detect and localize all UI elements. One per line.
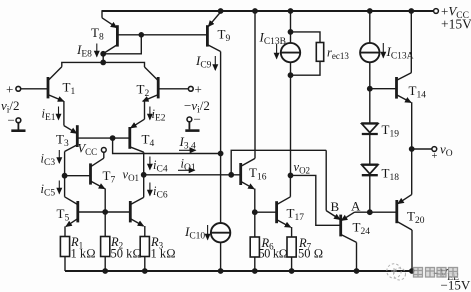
node junction I34	[218, 151, 222, 155]
node vO terminal circle	[432, 147, 437, 152]
label minus right	[194, 112, 201, 127]
wire T2 base input	[158, 88, 188, 90]
wire vO terminal	[412, 148, 432, 150]
label Vcc T7	[78, 142, 98, 158]
svg-text:T3: T3	[56, 132, 69, 150]
ground left	[11, 118, 25, 131]
node rail dot R3	[143, 269, 147, 273]
node +Vcc terminal	[434, 9, 439, 14]
node vO1	[142, 173, 146, 177]
label plus left	[6, 82, 13, 97]
label iO1 arrow	[178, 169, 195, 171]
node +Vcc label	[441, 4, 471, 32]
label R3	[150, 235, 176, 261]
label R6	[259, 236, 288, 261]
svg-text:rec13: rec13	[327, 46, 349, 62]
svg-text:T14: T14	[409, 83, 427, 101]
label plus right	[195, 82, 202, 97]
label -vi/2	[184, 98, 210, 116]
svg-text:−: −	[8, 113, 15, 128]
wire T14 emitter to vO	[411, 102, 413, 149]
label T7	[103, 168, 116, 186]
node rail dot IC13B	[288, 9, 292, 13]
svg-text:iC3: iC3	[41, 152, 56, 169]
svg-text:VCC: VCC	[78, 142, 98, 158]
transistor T5	[65, 197, 78, 227]
node junction vO1 T16	[229, 173, 233, 177]
wire T17 base	[255, 211, 277, 213]
label iC3	[41, 152, 56, 169]
svg-text:T16: T16	[249, 165, 267, 183]
label iE2 current arrow	[149, 107, 151, 120]
svg-text:−: −	[194, 112, 201, 127]
label T24	[353, 220, 371, 238]
label iC3 current arrow	[58, 150, 60, 163]
transistor T4	[130, 119, 145, 152]
svg-text:−15V: −15V	[441, 278, 471, 292]
svg-text:T24: T24	[353, 220, 371, 238]
wire T14 collector to rail	[410, 11, 412, 73]
transistor T2	[143, 67, 158, 101]
resistor rec13	[291, 32, 324, 75]
wire base tie to I34 node	[113, 138, 221, 153]
wire T3 collector down	[64, 152, 66, 176]
label -Vee	[432, 266, 471, 292]
node rail dot T20	[410, 269, 414, 273]
label IC9 current arrow	[214, 56, 216, 70]
label T2	[137, 82, 150, 100]
wire vO1 node to T24 emitter link	[231, 150, 326, 210]
node junction T3T4 base	[110, 136, 114, 140]
label T5	[57, 206, 70, 224]
node junction T8 collector	[101, 52, 105, 56]
transistor T24	[326, 211, 356, 243]
label vi/2	[1, 98, 20, 116]
node input + left terminal	[16, 86, 21, 91]
label minus left	[8, 113, 15, 128]
svg-text:1 kΩ: 1 kΩ	[151, 247, 176, 261]
svg-text:iE2: iE2	[152, 107, 166, 124]
wire vO1 to T16 base	[144, 174, 241, 176]
svg-text:T18: T18	[382, 166, 400, 184]
wire T1 emitter down	[63, 101, 65, 126]
label T14	[409, 83, 427, 101]
label T16	[249, 165, 267, 183]
svg-text:+: +	[195, 82, 202, 97]
current source IC13A	[360, 11, 379, 89]
label T3	[56, 132, 69, 150]
label T18	[382, 166, 400, 184]
label iO1	[181, 157, 196, 174]
label IE8	[76, 42, 92, 60]
node rail dot IC10	[218, 269, 222, 273]
resistor R1	[60, 226, 69, 271]
wire T2 emitter down	[144, 101, 146, 119]
diode T18	[361, 164, 378, 212]
node input + right terminal	[188, 86, 193, 91]
svg-text:IC10: IC10	[184, 224, 205, 242]
wire IC13B to vO2	[290, 75, 292, 175]
svg-text:IC13A: IC13A	[386, 44, 414, 62]
label I34 arrow	[179, 149, 196, 151]
label vO2	[294, 160, 311, 176]
label IC10 current arrow	[207, 225, 209, 240]
node junction T17 base	[253, 210, 257, 214]
svg-text:B: B	[331, 199, 340, 214]
svg-text:50 kΩ: 50 kΩ	[259, 247, 288, 261]
current source IC10	[211, 154, 230, 272]
label iC4	[153, 158, 168, 175]
diode T19	[361, 89, 378, 165]
node junction IC13B top	[288, 30, 292, 34]
label IC10	[184, 224, 205, 242]
svg-text:T20: T20	[407, 209, 425, 227]
wire T5 T6 base tie	[78, 211, 131, 213]
label rec13	[327, 46, 349, 62]
transistor T9	[207, 12, 220, 52]
resistor R6	[250, 212, 259, 271]
label I34	[179, 134, 196, 152]
label T4	[142, 132, 155, 150]
label IC13B current arrow	[276, 44, 278, 59]
label iE1 current arrow	[58, 107, 60, 120]
svg-text:T2: T2	[137, 82, 150, 100]
label IC13A	[386, 44, 414, 62]
transistor T17	[277, 197, 291, 227]
svg-text:vO2: vO2	[294, 160, 311, 176]
node junction T5T6 base	[103, 210, 107, 214]
node junction T8 base	[139, 33, 143, 37]
label vO	[432, 142, 453, 163]
node rail dot R6	[253, 269, 257, 273]
label T8	[91, 25, 104, 43]
label IC9	[195, 53, 212, 71]
transistor T3	[64, 125, 77, 151]
label T19	[382, 122, 400, 140]
node vO	[410, 147, 414, 151]
label IC13B	[259, 30, 287, 48]
svg-text:I3,4: I3,4	[179, 134, 196, 152]
wire T1 T2 collector bus	[62, 62, 145, 67]
svg-text:IC9: IC9	[195, 53, 212, 71]
svg-text:vO1: vO1	[123, 168, 140, 184]
label iC5 current arrow	[58, 181, 60, 194]
transistor T20	[397, 195, 412, 230]
wire vO2 to T24 base	[291, 175, 341, 225]
svg-text:T5: T5	[57, 206, 70, 224]
resistor R7	[287, 227, 296, 271]
current source IC13B	[281, 11, 300, 75]
svg-text:iC6: iC6	[153, 184, 168, 201]
svg-text:T9: T9	[218, 27, 231, 45]
label T17	[287, 206, 305, 224]
label R7	[298, 236, 323, 261]
svg-text:T4: T4	[142, 132, 155, 150]
label iC5	[41, 182, 56, 199]
svg-text:IE8: IE8	[76, 42, 92, 60]
wire T3 T4 base tie	[77, 137, 130, 139]
label iE2	[152, 107, 166, 124]
label T20	[407, 209, 425, 227]
label iC4 current arrow	[149, 157, 151, 170]
wire T20 collector down	[411, 230, 413, 271]
node Vcc terminal T7	[101, 148, 106, 159]
label R2	[110, 235, 142, 261]
svg-text:vO: vO	[440, 142, 453, 160]
label R1	[70, 235, 96, 261]
node rail dot R7	[289, 269, 293, 273]
wire node A	[355, 211, 397, 213]
svg-text:T8: T8	[91, 25, 104, 43]
node vO2	[288, 173, 292, 177]
node rail dot T14	[409, 9, 413, 13]
svg-text:+15V: +15V	[441, 17, 471, 32]
svg-text:T7: T7	[103, 168, 116, 186]
label iC6 current arrow	[149, 183, 151, 196]
transistor T14	[397, 73, 412, 103]
svg-text:50 Ω: 50 Ω	[298, 247, 323, 261]
label IE8 current arrow	[96, 44, 98, 57]
wire T20 emitter up	[411, 149, 413, 195]
svg-text:T19: T19	[382, 122, 400, 140]
node rail dot T16	[253, 9, 257, 13]
wire T9 collector down	[220, 52, 222, 154]
label vO1	[123, 168, 140, 184]
wire T16 collector to rail	[254, 11, 256, 158]
label IC13A current arrow	[382, 43, 384, 58]
transistor T7	[91, 158, 105, 188]
wire T6 collector to vO1	[143, 175, 145, 198]
node junction T9 emitter rail	[218, 9, 222, 13]
svg-text:1 kΩ: 1 kΩ	[71, 247, 96, 261]
svg-text:+: +	[6, 82, 13, 97]
wire T4 collector down	[143, 152, 145, 175]
svg-text:A: A	[351, 199, 361, 214]
wire T24 collector down	[356, 242, 358, 271]
svg-text:iC5: iC5	[41, 182, 56, 199]
ground right	[185, 117, 199, 131]
transistor T16	[241, 158, 255, 188]
wire iC5 down	[64, 176, 66, 197]
node junction T7 base	[62, 174, 66, 178]
svg-text:T1: T1	[63, 80, 76, 98]
svg-text:IC13B: IC13B	[259, 30, 287, 48]
svg-text:50 kΩ: 50 kΩ	[111, 247, 142, 261]
wire T7 emitter down	[104, 188, 106, 212]
label iE1	[42, 107, 56, 124]
label iC6	[153, 184, 168, 201]
node junction IC13B bottom	[288, 73, 292, 77]
label B	[331, 199, 340, 214]
transistor T1	[48, 67, 64, 101]
transistor T6	[130, 197, 143, 226]
svg-text:T17: T17	[287, 206, 305, 224]
watermark	[387, 264, 406, 280]
wire +Vcc top rail	[102, 10, 434, 18]
wire T17 collector to vO2	[289, 175, 291, 196]
label T9	[218, 27, 231, 45]
svg-text:+: +	[432, 151, 438, 162]
label T1	[63, 80, 76, 98]
svg-text:iC4: iC4	[153, 158, 168, 175]
wire T8-T9 base tie	[103, 35, 207, 63]
svg-text:iE1: iE1	[42, 107, 56, 124]
wire T1 base input	[21, 88, 48, 90]
resistor R2	[101, 212, 110, 271]
wire T7 base	[65, 175, 91, 177]
resistor R3	[140, 226, 149, 271]
wire T16 emitter down	[254, 189, 256, 213]
node rail dot IC13A	[368, 9, 372, 13]
wire T14 base	[370, 88, 397, 90]
node rail dot T24	[354, 269, 358, 273]
node rail dot R2	[103, 269, 107, 273]
transistor T8	[102, 18, 117, 54]
node junction A	[368, 210, 372, 214]
wire bottom rail -Vee	[65, 270, 412, 272]
label A	[351, 199, 361, 214]
node junction T1T2 collectors	[101, 60, 105, 64]
node junction T14 base	[368, 87, 372, 91]
